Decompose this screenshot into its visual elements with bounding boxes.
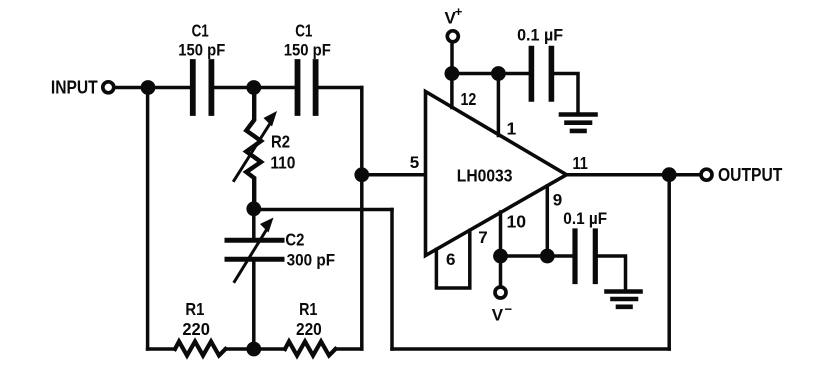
- ground bottom-right: [607, 289, 641, 294]
- capacitor bypass bottom plates: [572, 231, 577, 282]
- junction R2/C2 node: [246, 201, 261, 216]
- svg-text:300 pF: 300 pF: [287, 251, 336, 270]
- wire bottom right rail: [392, 347, 669, 351]
- capacitor C1 second plates: [295, 62, 301, 113]
- svg-text:6: 6: [446, 250, 455, 269]
- wire V- stem: [499, 256, 503, 286]
- capacitor C1 first plates: [190, 62, 196, 113]
- wire between R1s: [226, 347, 286, 351]
- resistor R1 first zigzag: [175, 342, 226, 356]
- resistor R1 second zigzag: [285, 342, 336, 356]
- svg-text:150 pF: 150 pF: [284, 40, 331, 59]
- wire pin5: [362, 173, 425, 177]
- svg-text:9: 9: [553, 190, 562, 209]
- svg-text:INPUT: INPUT: [51, 78, 98, 98]
- svg-text:7: 7: [478, 228, 487, 247]
- junction input: [141, 80, 156, 95]
- node INPUT terminal: [103, 82, 114, 93]
- wire right vertical (C1 out down to bottom): [360, 88, 364, 350]
- ground top-right: [561, 112, 596, 117]
- wire R1 to right vertical: [336, 347, 362, 351]
- svg-text:0.1 µF: 0.1 µF: [563, 210, 607, 228]
- arrow of C2: [235, 231, 267, 282]
- svg-text:V: V: [492, 305, 504, 324]
- wire V- rail to bypass cap: [501, 254, 574, 258]
- svg-text:R1: R1: [299, 299, 318, 319]
- svg-text:220: 220: [296, 319, 322, 339]
- svg-text:C1: C1: [192, 21, 209, 41]
- wire pin10: [499, 212, 503, 256]
- wire output vertical feedback: [667, 175, 671, 349]
- wire pin12: [450, 74, 454, 108]
- wire feedback vertical down: [390, 210, 394, 350]
- svg-text:R2: R2: [271, 132, 290, 152]
- svg-text:10: 10: [507, 212, 527, 232]
- svg-text:−: −: [505, 302, 513, 317]
- arrow of R2: [234, 124, 270, 181]
- junction V- a: [493, 249, 508, 264]
- junction C1-C1: [246, 80, 261, 95]
- junction V+ b: [491, 66, 506, 81]
- svg-text:12: 12: [461, 89, 477, 109]
- junction pin9: [540, 249, 555, 264]
- svg-text:C2: C2: [285, 230, 304, 250]
- wire cap to ground corner lower: [598, 256, 626, 290]
- svg-text:0.1 µF: 0.1 µF: [517, 26, 563, 45]
- wire pin9: [546, 186, 550, 256]
- capacitor bypass top plates: [529, 49, 535, 100]
- svg-text:1: 1: [507, 119, 517, 139]
- resistor R2 zigzag: [246, 88, 261, 210]
- svg-text:OUTPUT: OUTPUT: [718, 165, 782, 185]
- wire C2 bottom stub: [252, 262, 256, 350]
- wire C1 to right corner: [318, 86, 362, 90]
- junction bottom R1 node: [246, 342, 261, 357]
- wire between C1 and C1: [214, 86, 295, 90]
- junction output: [662, 167, 677, 182]
- wire bottom left segment: [148, 347, 175, 351]
- svg-text:C1: C1: [295, 21, 312, 41]
- wire input to C1: [115, 86, 192, 90]
- svg-text:LH0033: LH0033: [457, 165, 513, 185]
- junction V+ a: [445, 66, 460, 81]
- svg-text:150 pF: 150 pF: [178, 40, 225, 59]
- wire pin6-pin7 jumper: [436, 231, 469, 289]
- svg-text:110: 110: [270, 153, 295, 173]
- wire feedback horizontal from R2/C2 node: [254, 208, 392, 212]
- svg-text:+: +: [455, 4, 463, 19]
- wire output: [567, 173, 701, 177]
- node V+ terminal: [447, 31, 458, 42]
- svg-text:220: 220: [182, 319, 210, 339]
- svg-text:R1: R1: [185, 299, 204, 319]
- wire V+ stem: [450, 44, 454, 74]
- node OUTPUT terminal: [701, 169, 712, 180]
- wire V+ rail to bypass cap: [452, 72, 530, 76]
- node V- terminal: [495, 287, 506, 298]
- wire pin1: [497, 74, 501, 136]
- junction pin5 node: [354, 167, 369, 182]
- op-amp U1 triangle: [426, 92, 567, 256]
- svg-text:5: 5: [410, 153, 419, 172]
- wire left vertical input branch: [146, 88, 150, 350]
- capacitor C2 plates: [227, 238, 282, 243]
- wire cap to ground corner: [554, 74, 578, 113]
- svg-text:11: 11: [573, 153, 589, 173]
- wire C2 top stub: [252, 209, 256, 238]
